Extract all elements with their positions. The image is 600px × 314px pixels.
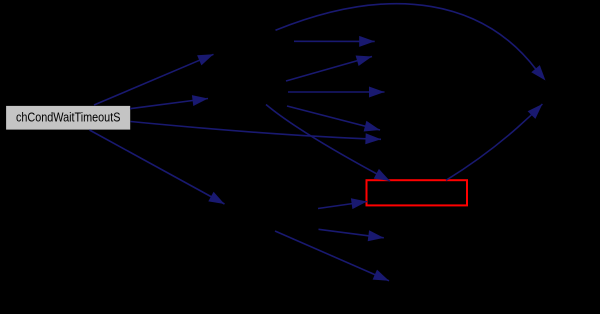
edge T1 -> far-right node R (big top curve) (276, 4, 546, 81)
node highlighted callee (red border) (367, 180, 468, 205)
svg-text:chCondWaitTimeoutS: chCondWaitTimeoutS (16, 110, 121, 125)
edge T2 -> node M2 (horizontal) (288, 87, 385, 98)
edge B -> node M4 (319, 229, 384, 241)
edge main -> bottom node B (90, 130, 225, 204)
node chCondWaitTimeoutS (main, gray) (6, 106, 130, 130)
edge main -> node M3 (long shallow) (131, 122, 382, 145)
edge main -> top node T1 (94, 54, 214, 105)
edge T2 -> node M1 (diagonal up) (286, 56, 372, 82)
edge B -> red node (318, 198, 367, 209)
edge T2 -> node M3 (287, 106, 380, 132)
edge T1 -> node M1 (horizontal) (294, 36, 375, 47)
edge B -> node M5 (long) (275, 231, 389, 281)
edge main -> node T2 (130, 95, 208, 109)
edge red node -> far-right node R (446, 104, 542, 180)
edge T2 -> red node (diagonal down) (266, 105, 390, 182)
